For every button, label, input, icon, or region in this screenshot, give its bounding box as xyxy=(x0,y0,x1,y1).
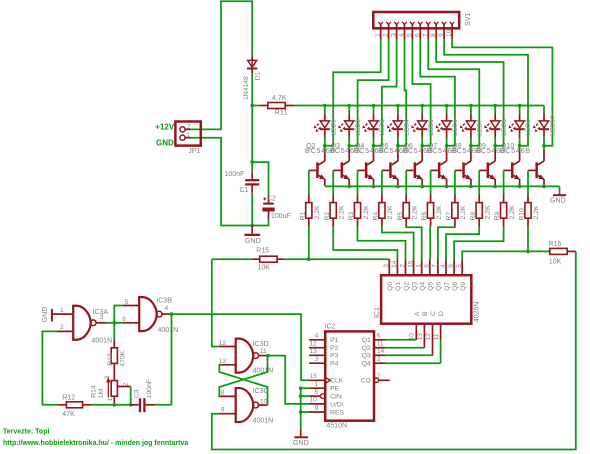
junction emitter column 3 xyxy=(372,185,376,189)
pin Q3 of IC1 (pin 15) xyxy=(413,259,415,275)
pin Q1 of IC2 (pin 6) xyxy=(374,339,386,341)
svg-text:13: 13 xyxy=(417,333,424,341)
svg-text:3: 3 xyxy=(104,375,111,379)
junction collector node column 7 xyxy=(469,144,473,148)
junction LED5 anode on bus xyxy=(420,104,424,108)
junction LED2 anode on bus xyxy=(347,104,351,108)
svg-text:1: 1 xyxy=(375,33,382,37)
pin A of IC1 (pin 10) xyxy=(415,324,417,340)
pin C of IC1 (pin 12) xyxy=(432,324,434,356)
svg-text:7: 7 xyxy=(432,264,439,268)
svg-text:10: 10 xyxy=(260,398,268,405)
pin 4 of SV1 xyxy=(402,22,404,25)
wire base of Q4 to R3 xyxy=(357,170,359,194)
junction collector node column 5 xyxy=(420,144,424,148)
svg-text:GND: GND xyxy=(42,307,49,323)
svg-text:6: 6 xyxy=(377,333,381,340)
svg-text:7: 7 xyxy=(422,33,429,37)
svg-text:14: 14 xyxy=(377,348,385,355)
trimmer R14 xyxy=(113,373,115,381)
LED LED3 xyxy=(373,106,375,114)
svg-text:2,2K: 2,2K xyxy=(509,205,516,219)
svg-text:2: 2 xyxy=(399,264,406,268)
svg-text:R2: R2 xyxy=(324,212,331,221)
junction R10/R16 node xyxy=(526,250,530,254)
pin CLK of IC2 (pin 15) xyxy=(309,379,325,381)
pin D of IC1 (pin 11) xyxy=(440,324,442,340)
LED LED8 xyxy=(494,106,496,114)
svg-text:P2: P2 xyxy=(330,345,339,352)
svg-text:11: 11 xyxy=(377,341,384,348)
wire +V node down to C1 xyxy=(251,106,253,174)
wire base of Q3 to R2 xyxy=(332,170,334,194)
wire base of Q11 to R10 xyxy=(527,170,529,194)
svg-text:1: 1 xyxy=(187,132,191,139)
svg-text:12: 12 xyxy=(425,333,432,341)
svg-text:4: 4 xyxy=(315,333,319,340)
junction at C1/C2 branch xyxy=(250,160,254,164)
svg-text:Q0: Q0 xyxy=(387,282,394,291)
wire R2 to IC1 pin Q1 xyxy=(333,226,397,259)
transistor Q2 xyxy=(324,146,326,150)
svg-text:9: 9 xyxy=(438,33,445,37)
wire base of Q6 to R5 xyxy=(405,170,407,194)
svg-text:3: 3 xyxy=(383,264,390,268)
svg-text:1: 1 xyxy=(107,397,114,401)
base pin of Q10 xyxy=(504,169,511,171)
junction emitter column 8 xyxy=(493,185,497,189)
wire +V LED anode bus from R11 xyxy=(294,105,544,107)
svg-text:5: 5 xyxy=(315,389,319,396)
svg-text:PE: PE xyxy=(330,386,340,393)
svg-text:14: 14 xyxy=(391,260,398,268)
svg-text:http://www.hobbielektronika.hu: http://www.hobbielektronika.hu/ - minden… xyxy=(3,440,188,447)
pin P4 of IC2 (pin 3) xyxy=(309,362,325,364)
wire IC2 Q4 to IC1 D xyxy=(386,362,441,364)
svg-text:Q7: Q7 xyxy=(444,282,451,291)
ground symbol at IC3A input 1 xyxy=(51,309,53,322)
svg-text:12: 12 xyxy=(310,341,318,348)
base pin of Q11 xyxy=(528,169,535,171)
svg-text:IC3C: IC3C xyxy=(253,388,269,395)
svg-text:5: 5 xyxy=(456,264,463,268)
wire PE/CIN/RES to ground xyxy=(301,387,309,389)
junction LED7 anode on bus xyxy=(469,104,473,108)
svg-text:2,2K: 2,2K xyxy=(460,205,467,219)
wire base of Q8 to R7 xyxy=(454,170,456,194)
svg-text:13: 13 xyxy=(310,348,318,355)
svg-text:2,2K: 2,2K xyxy=(363,205,370,219)
transistor Q5 xyxy=(397,146,399,150)
resistor R2 xyxy=(332,194,334,202)
junction LED8 anode on bus xyxy=(493,104,497,108)
wire branch from C1 node to C2 xyxy=(252,162,268,197)
wire LED4 cathode to collector node xyxy=(397,138,399,146)
wire LED7 cathode to collector node xyxy=(470,138,472,146)
svg-text:LED7: LED7 xyxy=(477,119,484,136)
svg-text:LED10: LED10 xyxy=(550,115,557,135)
svg-text:9: 9 xyxy=(448,264,455,268)
svg-text:1: 1 xyxy=(315,381,319,388)
pin RES of IC2 (pin 9) xyxy=(309,411,325,413)
resistor R12 xyxy=(58,404,66,406)
svg-text:4: 4 xyxy=(440,264,447,268)
wire LED1 cathode to collector node xyxy=(324,138,326,146)
svg-text:2: 2 xyxy=(187,124,191,131)
svg-text:2,2K: 2,2K xyxy=(339,205,346,219)
junction R14 wiper / C3 on rail xyxy=(129,403,133,407)
svg-text:2: 2 xyxy=(383,33,390,37)
junction emitter column 4 xyxy=(396,185,400,189)
svg-text:B: B xyxy=(422,311,429,316)
LED LED4 xyxy=(397,106,399,114)
svg-text:GND: GND xyxy=(245,236,261,245)
pin 8 of SV1 xyxy=(434,22,436,25)
base pin of Q8 xyxy=(455,169,462,171)
resistor R13 xyxy=(113,323,115,339)
svg-text:CLK: CLK xyxy=(330,378,344,385)
LED LED10 xyxy=(543,106,545,114)
junction emitter column 9 xyxy=(518,185,522,189)
svg-text:Q1: Q1 xyxy=(395,282,402,291)
pin Q9 of IC1 (pin 5) xyxy=(461,259,463,275)
svg-text:8: 8 xyxy=(221,389,225,396)
svg-text:P1: P1 xyxy=(330,337,339,344)
wire base of Q10 to R9 xyxy=(503,170,505,194)
connector SV1 xyxy=(373,12,459,28)
wire R12 to R14/C3 rail xyxy=(91,404,114,406)
svg-text:9: 9 xyxy=(315,405,319,412)
wire R8 to IC1 pin Q7 xyxy=(446,226,479,259)
svg-text:2,2K: 2,2K xyxy=(436,205,443,219)
junction emitter column 6 xyxy=(445,185,449,189)
capacitor C3 xyxy=(131,404,139,406)
svg-text:R4: R4 xyxy=(373,212,380,221)
svg-text:7: 7 xyxy=(377,373,381,380)
LED LED9 xyxy=(519,106,521,114)
transistor Q8 xyxy=(470,146,472,150)
LED LED7 xyxy=(470,106,472,114)
transistor Q3 xyxy=(348,146,350,150)
gate IC3A 4001N NOR xyxy=(52,313,73,315)
LED LED5 xyxy=(421,106,423,114)
svg-text:R13: R13 xyxy=(107,353,114,366)
svg-text:5: 5 xyxy=(125,299,129,306)
pin Q7 of IC1 (pin 4) xyxy=(445,259,447,275)
IC U1: IC1 4028N decoder xyxy=(381,275,471,324)
wire R5 to IC1 pin Q4 xyxy=(406,226,422,259)
svg-text:Q2: Q2 xyxy=(362,345,371,352)
junction collector node column 8 xyxy=(493,144,497,148)
wire SV1 pin 4 to Q5 collector node xyxy=(398,40,406,146)
clock triangle of IC2 CLK xyxy=(325,377,330,383)
wire +12V from JP1 pin 2 up and over to D1 anode xyxy=(190,1,252,129)
wire emitter ground bus xyxy=(325,185,560,187)
transistor Q4 xyxy=(373,146,375,150)
svg-text:LED1: LED1 xyxy=(330,119,337,136)
svg-text:C3: C3 xyxy=(134,389,141,398)
wire IC2 Q2 to IC1 B xyxy=(386,347,425,349)
svg-text:R10: R10 xyxy=(519,208,526,221)
svg-text:4510N: 4510N xyxy=(326,423,347,430)
resistor R4 xyxy=(381,194,383,202)
svg-text:6: 6 xyxy=(122,316,126,323)
svg-text:Q2: Q2 xyxy=(403,282,410,291)
resistor R9 xyxy=(503,194,505,202)
junction LED6 anode on bus xyxy=(445,104,449,108)
wire LED9 cathode to collector node xyxy=(519,138,521,146)
LED LED1 xyxy=(324,106,326,114)
junction R1/R15 node xyxy=(307,257,311,261)
gate IC3D 4001N NOR xyxy=(220,346,236,348)
svg-text:9: 9 xyxy=(221,407,225,414)
transistor Q6 xyxy=(421,146,423,150)
svg-text:1: 1 xyxy=(60,307,64,314)
pin P1 of IC2 (pin 4) xyxy=(309,339,325,341)
wire SV1 pin 3 to Q4 collector node xyxy=(374,40,397,146)
wire SV1 pin 5 to Q6 collector node xyxy=(412,40,430,146)
base pin of Q9 xyxy=(479,169,486,171)
wire R4 to IC1 pin Q3 xyxy=(382,226,414,259)
base pin of Q2 xyxy=(309,169,316,171)
wire C2 bottom to ground rail xyxy=(252,219,268,226)
junction collector node column 9 xyxy=(518,144,522,148)
resistor R10 xyxy=(527,194,529,202)
resistor R1 xyxy=(308,194,310,202)
ground symbol below IC2 xyxy=(300,430,302,437)
resistor R5 xyxy=(405,194,407,202)
svg-text:R5: R5 xyxy=(397,212,404,221)
svg-text:C: C xyxy=(430,311,437,316)
svg-text:3: 3 xyxy=(315,356,319,363)
resistor R6 xyxy=(430,194,432,202)
wire IC3A output to IC3B inputs xyxy=(114,306,123,323)
base pin of Q3 xyxy=(333,169,340,171)
svg-text:LED4: LED4 xyxy=(404,119,411,136)
junction IC3B output xyxy=(170,312,174,316)
svg-text:R16: R16 xyxy=(549,241,562,248)
junction emitter column 10 xyxy=(542,185,546,189)
pin U/D\ of IC2 (pin 10) xyxy=(309,403,325,405)
pin Q0 of IC1 (pin 3) xyxy=(388,259,390,275)
svg-text:2,2K: 2,2K xyxy=(533,205,540,219)
svg-text:LED3: LED3 xyxy=(379,119,386,136)
svg-text:IC3A: IC3A xyxy=(93,309,109,316)
svg-text:100nF: 100nF xyxy=(225,171,245,178)
wire LED2 cathode to collector node xyxy=(348,138,350,146)
wire LED10 cathode to collector node xyxy=(543,138,545,146)
wire R16 down right edge to IC3C input 9 xyxy=(212,251,576,449)
wire SV1 pin 2 to Q3 collector node xyxy=(349,40,388,146)
pin 9 of SV1 xyxy=(442,22,444,25)
wire R6 to IC1 pin Q5 xyxy=(429,226,431,259)
ground symbol at emitter bus xyxy=(559,186,561,193)
wire base of Q9 to R8 xyxy=(478,170,480,194)
pin 6 of SV1 xyxy=(418,22,420,25)
pin 5 of SV1 xyxy=(410,22,412,25)
svg-text:4001N: 4001N xyxy=(92,337,113,344)
junction emitter column 2 xyxy=(347,185,351,189)
svg-text:15: 15 xyxy=(407,260,414,268)
pin Q1 of IC1 (pin 14) xyxy=(396,259,398,275)
wiper pin 2 of R14 to rail xyxy=(117,386,130,388)
wire SV1 pin 1 to Q2 collector node xyxy=(325,40,381,146)
junction R14 bottom on rail xyxy=(113,403,117,407)
svg-text:5: 5 xyxy=(406,33,413,37)
wire IC3C input 8 to IC3D output (cross coupling) xyxy=(219,356,267,397)
svg-text:LED5: LED5 xyxy=(428,119,435,136)
junction collector node column 4 xyxy=(396,144,400,148)
svg-text:LED8: LED8 xyxy=(501,119,508,136)
svg-text:11: 11 xyxy=(260,348,267,355)
wire R7 to IC1 pin Q6 xyxy=(438,226,455,259)
svg-text:4: 4 xyxy=(399,33,406,37)
svg-text:10: 10 xyxy=(446,29,453,37)
resistor R16 xyxy=(528,250,550,252)
svg-text:2: 2 xyxy=(377,356,381,363)
junction collector node column 3 xyxy=(372,144,376,148)
svg-text:+12V: +12V xyxy=(155,123,175,132)
svg-text:10K: 10K xyxy=(258,265,271,272)
wire IC3D input 13 to IC3C output (cross coupling) xyxy=(219,365,267,405)
svg-text:100uF: 100uF xyxy=(271,213,291,220)
svg-text:D1: D1 xyxy=(255,71,262,80)
svg-text:Q5: Q5 xyxy=(428,282,435,291)
pin Q4 of IC1 (pin 1) xyxy=(421,259,423,275)
junction collector node column 10 xyxy=(542,144,546,148)
svg-text:6: 6 xyxy=(424,264,431,268)
svg-text:4: 4 xyxy=(165,305,169,312)
wire base of Q7 to R6 xyxy=(430,170,432,194)
junction collector node column 1 xyxy=(323,144,327,148)
wire IC2 Q1 to IC1 A xyxy=(386,339,417,341)
svg-text:IC3D: IC3D xyxy=(253,341,269,348)
svg-text:10: 10 xyxy=(310,397,318,404)
wire R1 to IC1 pin Q0 xyxy=(308,226,310,259)
resistor R11 xyxy=(252,105,260,107)
svg-text:SV1: SV1 xyxy=(465,12,472,25)
junction on ground rail at GND symbol xyxy=(250,224,254,228)
wire SV1 pin 9 to Q10 collector node xyxy=(444,40,528,146)
wire R10 to IC1 pin Q9 xyxy=(462,226,528,259)
svg-text:P3: P3 xyxy=(330,353,339,360)
wire base of Q2 to R1 xyxy=(308,170,310,194)
svg-text:4001N: 4001N xyxy=(253,418,274,425)
svg-text:13: 13 xyxy=(219,358,227,365)
wire IC3A output node xyxy=(107,322,114,324)
svg-text:C2: C2 xyxy=(267,195,276,202)
base pin of Q6 xyxy=(406,169,413,171)
svg-text:2,2K: 2,2K xyxy=(314,205,321,219)
pin 3 of SV1 xyxy=(394,22,396,25)
junction at IC2 CIN xyxy=(299,394,303,398)
svg-text:2,2K: 2,2K xyxy=(485,205,492,219)
resistor R7 xyxy=(454,194,456,202)
svg-text:10K: 10K xyxy=(549,258,562,265)
svg-text:P4: P4 xyxy=(330,361,339,368)
transistor Q10 xyxy=(519,146,521,150)
svg-text:Q3: Q3 xyxy=(362,353,371,360)
svg-text:LED6: LED6 xyxy=(452,119,459,136)
pin Q3 of IC2 (pin 14) xyxy=(374,354,386,356)
base pin of Q5 xyxy=(382,169,389,171)
svg-text:R9: R9 xyxy=(494,212,501,221)
base pin of Q4 xyxy=(358,169,365,171)
transistor Q11 xyxy=(543,146,545,150)
gate IC3B 4001N NOR xyxy=(123,305,139,307)
svg-text:R7: R7 xyxy=(446,212,453,221)
svg-text:1M: 1M xyxy=(98,389,105,399)
resistor R15 xyxy=(252,258,260,260)
svg-text:4,7K: 4,7K xyxy=(272,95,287,102)
wire LED6 cathode to collector node xyxy=(446,138,448,146)
wire SV1 pin 7 to Q8 collector node xyxy=(428,40,479,146)
connector JP1 xyxy=(175,122,200,146)
wire R15 to IC3D input 12 xyxy=(212,259,220,346)
svg-text:D: D xyxy=(438,311,445,316)
svg-text:Q4: Q4 xyxy=(362,361,371,368)
junction LED3 anode on bus xyxy=(372,104,376,108)
svg-text:2,2K: 2,2K xyxy=(412,205,419,219)
wire D1 cathode to +V node xyxy=(251,74,253,106)
base pin of Q7 xyxy=(431,169,438,171)
wire C3 to IC3B output vertical xyxy=(155,404,172,406)
wire IC3D output to IC2 U/D xyxy=(268,356,309,404)
svg-text:R14: R14 xyxy=(91,385,98,398)
svg-text:8: 8 xyxy=(430,33,437,37)
junction LED9 anode on bus xyxy=(518,104,522,108)
svg-text:47K: 47K xyxy=(62,411,75,418)
IC IC2 4510N counter xyxy=(325,331,374,420)
ground symbol below C1 xyxy=(251,226,253,234)
svg-text:LED2: LED2 xyxy=(355,119,362,136)
svg-text:Q1: Q1 xyxy=(362,337,371,344)
pin CIN of IC2 (pin 5) xyxy=(321,394,326,399)
transistor Q7 xyxy=(446,146,448,150)
resistor R8 xyxy=(478,194,480,202)
wire C1 bottom to ground rail xyxy=(251,193,253,226)
svg-text:U/D\: U/D\ xyxy=(330,401,344,408)
wire base of Q5 to R4 xyxy=(381,170,383,194)
capacitor C2 (electrolytic) xyxy=(268,197,270,203)
pin 10 of SV1 xyxy=(450,22,452,25)
svg-text:Q8: Q8 xyxy=(452,282,459,291)
wire IC1 D green riser xyxy=(440,340,442,363)
pin Q8 of IC1 (pin 9) xyxy=(453,259,455,275)
svg-text:CO: CO xyxy=(361,378,371,385)
transistor Q9 xyxy=(494,146,496,150)
svg-text:R1: R1 xyxy=(299,212,306,221)
wire IC3B output to IC2 CLK xyxy=(172,314,310,380)
svg-text:CIN: CIN xyxy=(330,394,342,401)
junction at IC2 PE xyxy=(299,386,303,390)
diode D1 xyxy=(251,56,253,60)
wire LED8 cathode to collector node xyxy=(494,138,496,146)
svg-text:2: 2 xyxy=(60,324,64,331)
svg-text:RES: RES xyxy=(330,409,344,416)
wire R9 to IC1 pin Q8 xyxy=(454,226,504,259)
svg-text:2,2K: 2,2K xyxy=(387,205,394,219)
pin PE of IC2 (pin 1) xyxy=(309,387,325,389)
pin P2 of IC2 (pin 12) xyxy=(309,347,325,349)
capacitor C1 xyxy=(251,173,253,179)
svg-text:470K: 470K xyxy=(119,350,126,366)
gate IC3C 4001N NOR xyxy=(220,395,236,397)
svg-text:JP1: JP1 xyxy=(188,148,200,155)
svg-text:R12: R12 xyxy=(62,394,75,401)
wire IC3A input 2 to timing rail xyxy=(42,331,58,404)
pin Q4 of IC2 (pin 2) xyxy=(374,362,386,364)
